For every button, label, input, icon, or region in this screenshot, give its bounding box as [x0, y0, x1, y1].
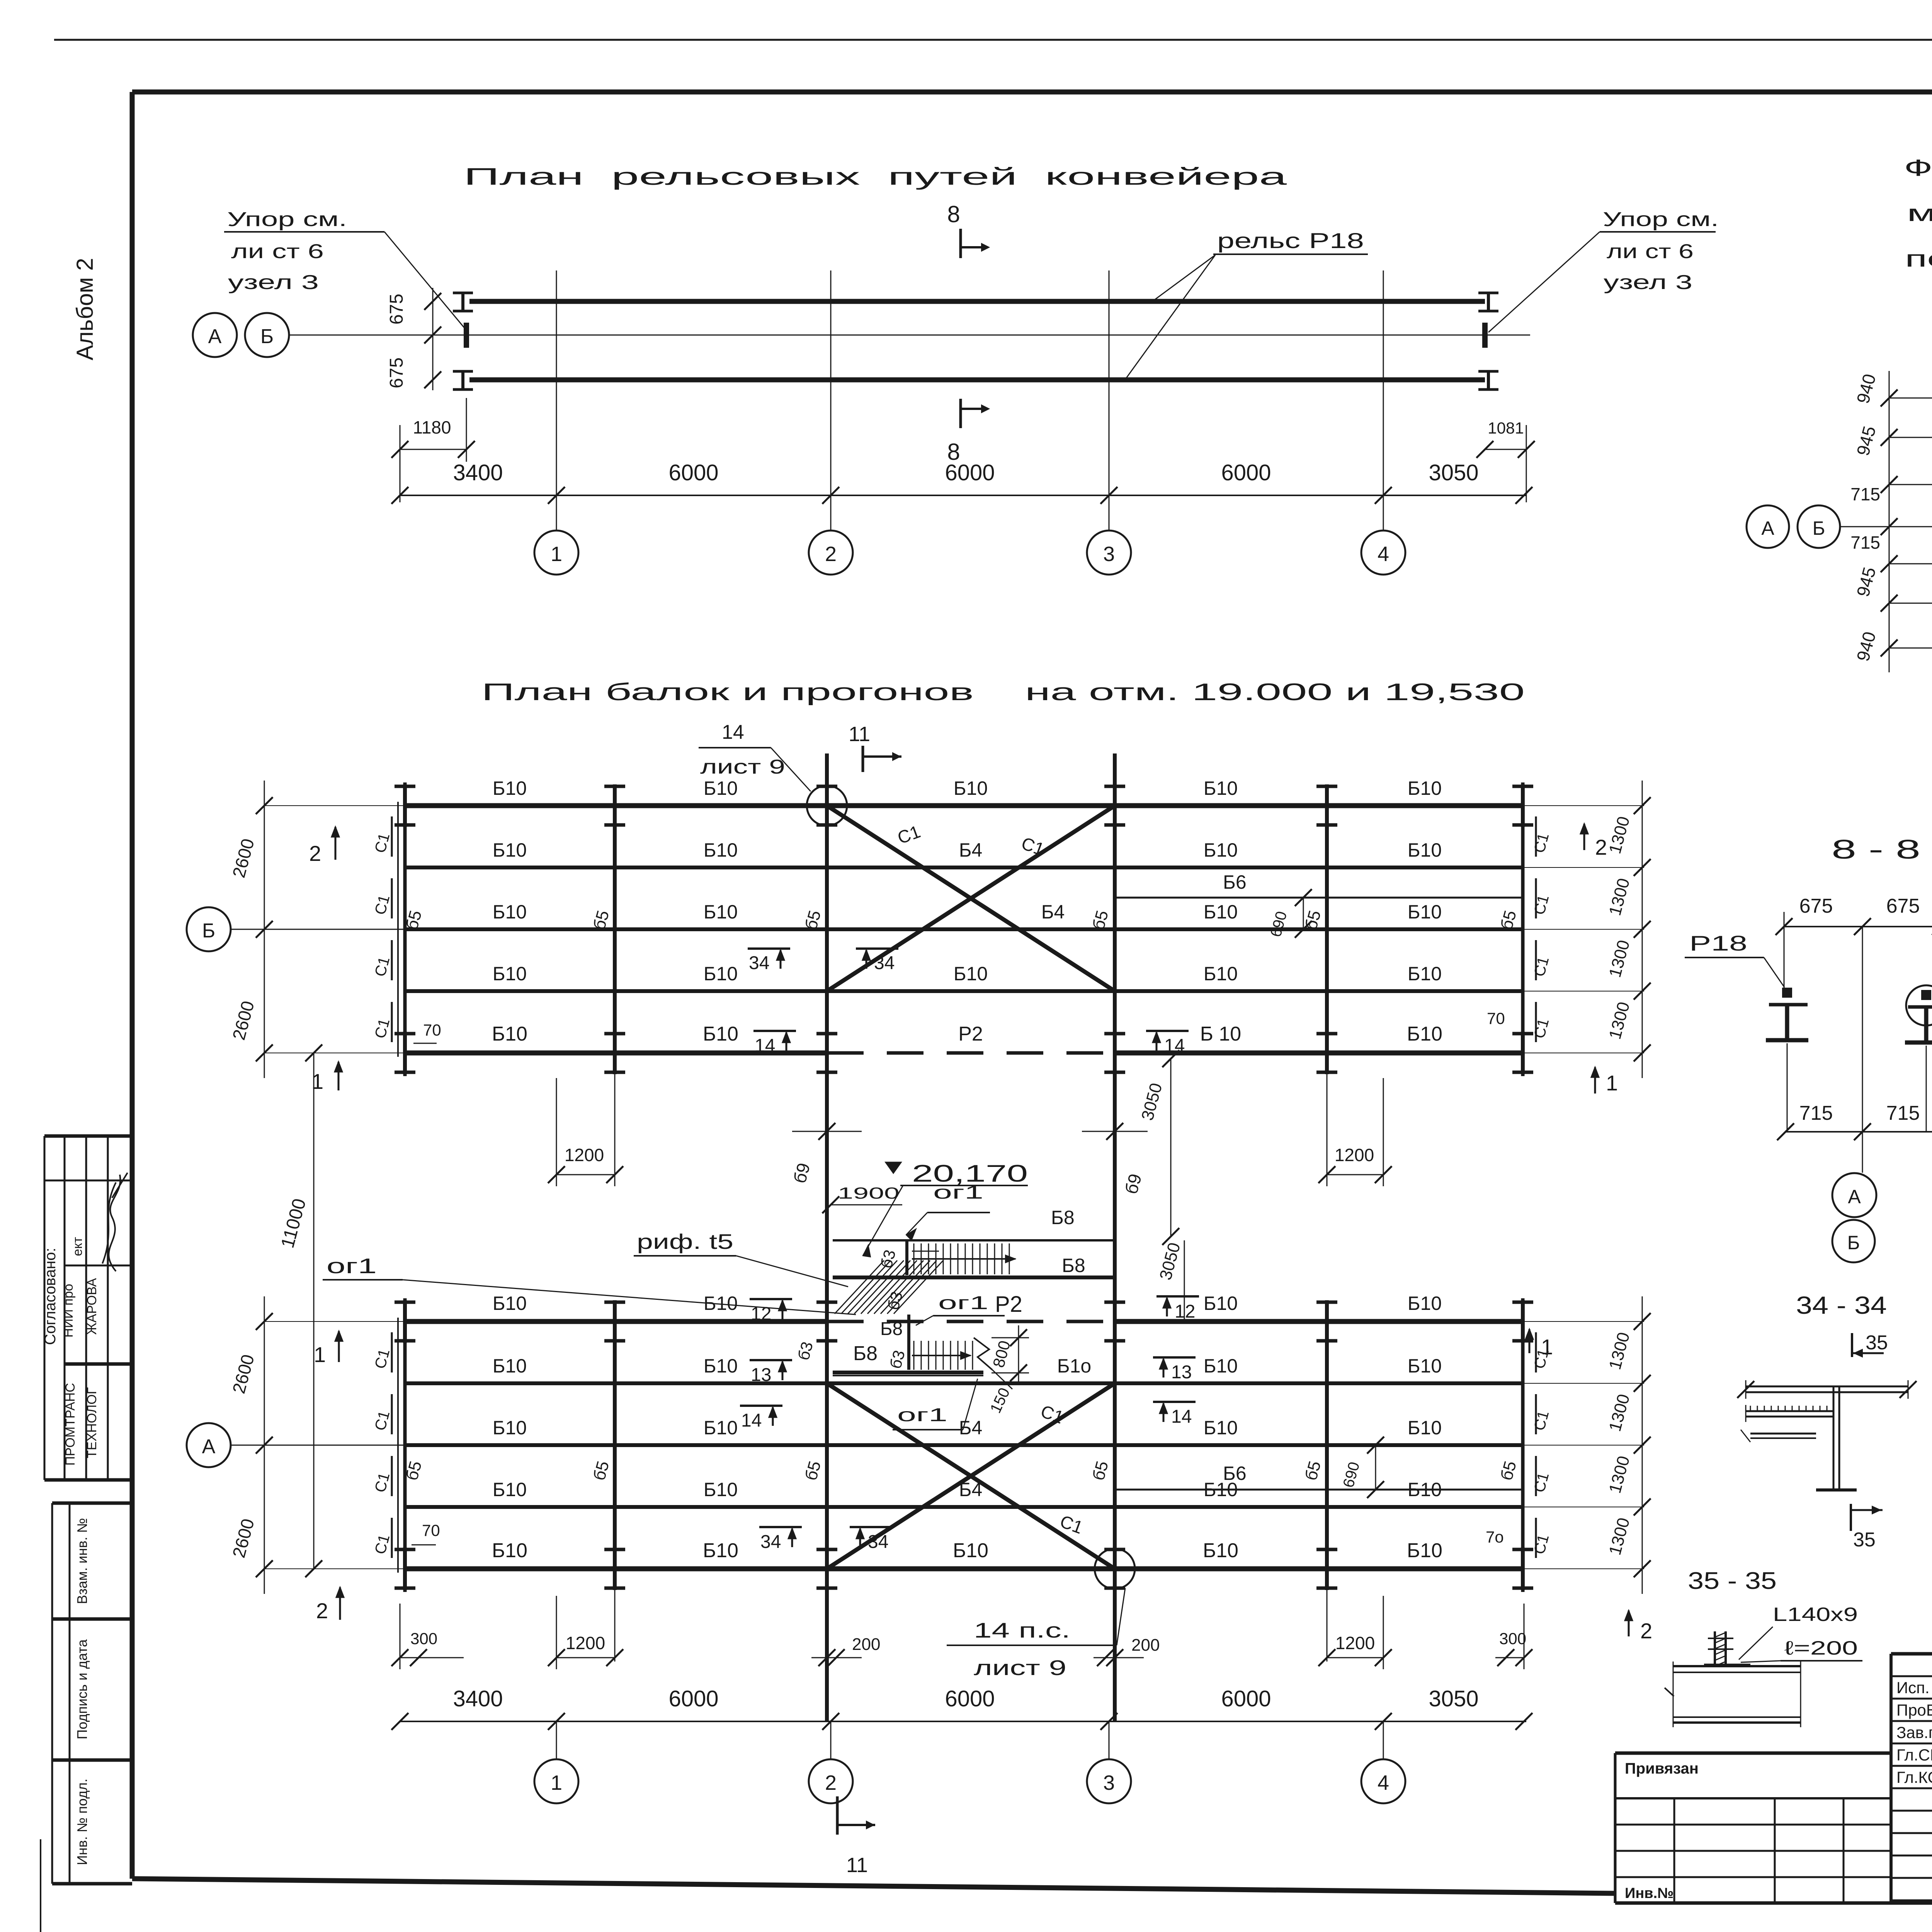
right rail stop (upor): [1482, 323, 1488, 348]
svg-text:Б4: Б4: [959, 839, 983, 861]
svg-text:лист 9: лист 9: [974, 1656, 1066, 1680]
svg-text:4: 4: [1378, 1771, 1389, 1794]
rails main dimension string 3400 6000 6000 6000 3050: [400, 495, 1526, 496]
8-8 circle on right rail: [1906, 985, 1932, 1026]
svg-text:Инв. № подл.: Инв. № подл.: [74, 1779, 90, 1865]
svg-text:1: 1: [1606, 1071, 1618, 1095]
Б band beam row 5 with Р2 dashed part: [405, 1051, 827, 1056]
column bubbles 1 2 3 4 bottom: [556, 1721, 557, 1759]
svg-text:Б10: Б10: [493, 777, 527, 799]
svg-text:риф. t5: риф. t5: [637, 1230, 733, 1253]
stair flight lower: [913, 1341, 915, 1370]
svg-text:14: 14: [741, 1410, 762, 1431]
svg-text:А: А: [1761, 517, 1774, 539]
svg-text:лист 9: лист 9: [700, 756, 785, 778]
svg-text:6000: 6000: [668, 1686, 718, 1711]
svg-text:Б10: Б10: [1204, 777, 1238, 799]
svg-text:200: 200: [1131, 1636, 1160, 1655]
marker 34 pair А band: [759, 1526, 802, 1528]
sheet inner frame left border: [130, 92, 135, 1879]
dim 1180 left: [400, 425, 401, 502]
svg-text:Б10: Б10: [493, 901, 527, 923]
left stamp box Подпись и дата: [52, 1759, 132, 1762]
svg-text:L140х9: L140х9: [1773, 1604, 1858, 1625]
svg-text:70: 70: [422, 1521, 440, 1539]
svg-text:Б10: Б10: [1204, 1479, 1238, 1500]
svg-text:Б8: Б8: [853, 1342, 878, 1365]
svg-text:3: 3: [1103, 543, 1115, 566]
svg-text:Б10: Б10: [1407, 1023, 1442, 1045]
svg-text:Исп.: Исп.: [1896, 1679, 1930, 1697]
svg-text:ог1: ог1: [933, 1182, 983, 1203]
Б band beam Б6 extra line: [1115, 897, 1523, 899]
svg-text:Б10: Б10: [953, 1539, 988, 1562]
svg-text:13: 13: [1171, 1362, 1192, 1383]
svg-text:3400: 3400: [453, 1686, 503, 1711]
svg-text:Б10: Б10: [1408, 1417, 1442, 1439]
column bubbles 1 2 3 4 of rails plan: [556, 495, 557, 531]
left stamp table Согласовано: [44, 1134, 132, 1138]
svg-text:Б10: Б10: [704, 777, 738, 799]
svg-text:1: 1: [311, 1069, 323, 1094]
svg-text:6000: 6000: [945, 1686, 995, 1711]
svg-text:Б10: Б10: [704, 839, 738, 861]
8-8 axis circles А Б: [1832, 1173, 1876, 1217]
svg-text:А: А: [202, 1435, 216, 1458]
А band right dims 1300 x4: [1642, 1296, 1643, 1594]
svg-text:34 - 34: 34 - 34: [1796, 1291, 1887, 1319]
svg-text:34: 34: [874, 953, 895, 973]
small dims under А band: [400, 1604, 401, 1669]
svg-text:ект: ект: [70, 1237, 85, 1256]
svg-text:715: 715: [1850, 484, 1880, 504]
svg-text:300: 300: [410, 1629, 437, 1648]
svg-text:Б10: Б10: [492, 1539, 527, 1562]
svg-text:Б10: Б10: [1408, 1293, 1442, 1314]
svg-text:ог1: ог1: [897, 1405, 947, 1425]
svg-text:Б8: Б8: [880, 1319, 903, 1339]
svg-text:14: 14: [1171, 1406, 1192, 1427]
Б band left dim 2600/2600: [264, 781, 265, 1078]
svg-text:1200: 1200: [565, 1145, 604, 1165]
detail 35-35 angle bracket: [1714, 1631, 1716, 1666]
svg-text:Б: Б: [260, 325, 274, 348]
svg-text:1: 1: [551, 1771, 562, 1794]
stair block beams Б8: [833, 1239, 1116, 1242]
svg-text:Б6: Б6: [1223, 871, 1247, 893]
svg-text:Б10: Б10: [1204, 1417, 1238, 1439]
svg-text:675: 675: [386, 294, 407, 325]
svg-text:Б10: Б10: [493, 1417, 527, 1439]
dim 800 rotated: [992, 1337, 1029, 1338]
svg-text:715: 715: [1799, 1102, 1833, 1124]
dim 1200 between bands left: [556, 1078, 557, 1186]
svg-text:Зав.гр.: Зав.гр.: [1896, 1723, 1932, 1742]
8-8 центральная axis vertical: [1862, 927, 1863, 1173]
marker 12 pair А band: [750, 1298, 792, 1300]
Б band X bracing: [827, 806, 1115, 991]
title block top edge: [1891, 1652, 1932, 1656]
ticks on columns between bands: [818, 1123, 835, 1140]
svg-text:2: 2: [316, 1599, 328, 1623]
column 2 vertical full: [825, 753, 829, 1721]
level mark 20,170: [886, 1162, 901, 1173]
dim 3050 upper rotated: [1170, 1059, 1172, 1236]
svg-text:8: 8: [947, 201, 960, 227]
svg-text:Б8: Б8: [1051, 1207, 1075, 1228]
svg-text:1180: 1180: [413, 417, 451, 437]
svg-text:Б10: Б10: [1408, 777, 1442, 799]
svg-text:Б10: Б10: [1408, 1355, 1442, 1377]
marker 13 pair А band: [750, 1359, 792, 1361]
svg-text:Б10: Б10: [1204, 839, 1238, 861]
svg-text:1: 1: [1541, 1335, 1553, 1359]
svg-text:Б10: Б10: [1408, 839, 1442, 861]
section mark 11 bottom: [836, 1796, 839, 1835]
svg-text:675: 675: [1886, 895, 1920, 917]
svg-text:1200: 1200: [1335, 1145, 1374, 1165]
svg-text:11: 11: [849, 723, 870, 746]
dim 11000 vertical: [313, 1053, 315, 1569]
svg-text:675: 675: [1799, 895, 1833, 917]
svg-text:14: 14: [755, 1036, 775, 1056]
svg-text:Упор см.: Упор см.: [1603, 208, 1719, 231]
svg-text:План рельсовых путей конвей: План рельсовых путей конвейера: [464, 163, 1287, 190]
detail 34-34 drawing: [1746, 1386, 1908, 1388]
svg-text:НИИ про: НИИ про: [61, 1284, 76, 1337]
svg-text:Б10: Б10: [703, 1539, 738, 1562]
svg-text:14: 14: [722, 721, 744, 743]
svg-text:Б10: Б10: [493, 1293, 527, 1314]
svg-text:Б10: Б10: [1408, 963, 1442, 985]
svg-text:4: 4: [1378, 543, 1389, 566]
axis line А-Б of rails: [289, 335, 1530, 336]
svg-text:Б10: Б10: [704, 1417, 738, 1439]
svg-text:1: 1: [551, 543, 562, 566]
svg-text:Б4: Б4: [959, 1479, 983, 1500]
svg-text:1200: 1200: [1335, 1633, 1375, 1653]
svg-text:Б4: Б4: [1041, 901, 1065, 923]
svg-text:6000: 6000: [668, 460, 718, 485]
svg-text:2: 2: [825, 543, 837, 566]
А band beam Б6 extra line: [1115, 1489, 1523, 1491]
svg-text:2: 2: [1595, 835, 1607, 859]
svg-text:ли ст 6: ли ст 6: [1607, 240, 1694, 263]
Б band beam row 1: [405, 803, 1523, 808]
Б band beam row 3 (axis Б): [405, 927, 1523, 931]
svg-text:13: 13: [751, 1365, 771, 1385]
svg-text:А: А: [208, 325, 222, 348]
svg-text:2: 2: [309, 841, 321, 866]
svg-text:35: 35: [1853, 1529, 1876, 1551]
svg-text:Б10: Б10: [1203, 1539, 1238, 1562]
svg-text:Б10: Б10: [1204, 901, 1238, 923]
marker 14 pair Б band: [753, 1030, 796, 1032]
svg-text:Инв.№: Инв.№: [1625, 1885, 1674, 1901]
А band X bracing: [827, 1383, 1115, 1569]
svg-text:8 - 8: 8 - 8: [1832, 834, 1920, 864]
svg-text:14: 14: [1164, 1036, 1185, 1056]
svg-text:3400: 3400: [453, 460, 503, 485]
svg-text:узел 3: узел 3: [1604, 271, 1692, 294]
svg-text:Б10: Б10: [703, 1023, 738, 1045]
svg-text:34: 34: [760, 1532, 781, 1552]
svg-text:ог1: ог1: [327, 1254, 377, 1278]
А band beam row 3 (axis А): [405, 1443, 1523, 1447]
svg-text:перекрытием на отм. 15,000: перекрытием на отм. 15,000: [1905, 246, 1932, 272]
8-8 left rail section: [1782, 988, 1792, 998]
stair vertical beams б3: [905, 1241, 908, 1275]
svg-text:План балок и прогонов на от: План балок и прогонов на отм. 19.000 и 1…: [481, 679, 1525, 706]
axis circle Б of plan: [187, 907, 231, 951]
column grid verticals through rails: [556, 270, 557, 502]
svg-text:Альбом 2: Альбом 2: [72, 258, 98, 360]
svg-text:ог1: ог1: [938, 1293, 988, 1313]
svg-text:Б10: Б10: [1407, 1539, 1442, 1562]
svg-text:Упор см.: Упор см.: [227, 208, 347, 231]
section arrows right of Б band: [1583, 824, 1585, 850]
svg-text:Б1о: Б1о: [1057, 1355, 1091, 1377]
svg-text:1200: 1200: [566, 1633, 605, 1653]
svg-text:рельс Р18: рельс Р18: [1217, 228, 1364, 253]
svg-text:Б10: Б10: [1204, 1355, 1238, 1377]
marker 14 pair А band: [740, 1405, 782, 1407]
svg-text:Б10: Б10: [493, 1355, 527, 1377]
svg-text:Б10: Б10: [704, 963, 738, 985]
svg-text:Б10: Б10: [1204, 1293, 1238, 1314]
svg-text:Б10: Б10: [1408, 1479, 1442, 1500]
svg-text:Б10: Б10: [493, 839, 527, 861]
svg-text:3: 3: [1103, 1771, 1115, 1794]
section mark 8 bottom: [959, 399, 962, 428]
sheet outer border left line (partial): [40, 1839, 41, 1932]
svg-text:ℓ=200: ℓ=200: [1784, 1637, 1858, 1659]
band edge verticals: [397, 802, 399, 1057]
svg-text:35: 35: [1866, 1332, 1888, 1354]
dim 1081 right: [1526, 425, 1527, 502]
8-8 dim 715 715: [1786, 1131, 1932, 1133]
band interior verticals: [613, 806, 617, 1053]
sheet outer border top line: [54, 39, 1932, 41]
rail top R18: [469, 299, 1485, 304]
sheet inner frame top border: [132, 90, 1932, 95]
joint circle column2 row1: [807, 786, 847, 826]
svg-text:Б10: Б10: [493, 963, 527, 985]
svg-text:ТЕХНОЛОГ: ТЕХНОЛОГ: [85, 1387, 99, 1458]
svg-text:2: 2: [1640, 1619, 1652, 1643]
svg-text:Б10: Б10: [493, 1479, 527, 1500]
marker 35 lower: [1850, 1504, 1852, 1531]
А band beam row 1 with Р2 dashed part: [405, 1319, 827, 1324]
А band beam row 5: [405, 1566, 1523, 1571]
svg-text:70: 70: [1487, 1009, 1505, 1027]
svg-text:1081: 1081: [1488, 419, 1524, 437]
svg-text:70: 70: [423, 1021, 441, 1039]
svg-text:Б10: Б10: [704, 1355, 738, 1377]
svg-text:Б: Б: [1813, 517, 1825, 539]
column 3 vertical full: [1113, 753, 1117, 1721]
Б band right dims 1300 x4: [1642, 781, 1643, 1078]
axis circles А Б of rails plan: [193, 313, 237, 357]
marker 34 pair Б band: [748, 947, 790, 950]
rail bottom R18: [469, 378, 1485, 383]
left rail stop (upor): [464, 323, 469, 348]
dim 1200 between bands right: [1383, 1078, 1384, 1186]
svg-text:2: 2: [825, 1771, 837, 1794]
svg-text:Р2: Р2: [995, 1292, 1022, 1317]
svg-text:3050: 3050: [1429, 1686, 1478, 1711]
svg-text:34: 34: [749, 953, 769, 973]
svg-text:Согласовано:: Согласовано:: [42, 1248, 59, 1345]
svg-text:35 - 35: 35 - 35: [1688, 1568, 1777, 1594]
dim 675/675 vertical at rails: [432, 288, 434, 390]
svg-text:ПРОМТРАНС: ПРОМТРАНС: [63, 1383, 78, 1466]
svg-text:3050: 3050: [1429, 460, 1478, 485]
svg-text:Б10: Б10: [954, 963, 988, 985]
svg-text:Б: Б: [202, 920, 215, 942]
left stamp box Инв. № подл.: [52, 1882, 132, 1886]
svg-text:Б 10: Б 10: [1200, 1023, 1241, 1045]
svg-text:Б10: Б10: [1204, 963, 1238, 985]
А band beam row 2: [405, 1381, 1523, 1385]
svg-text:200: 200: [852, 1635, 880, 1654]
svg-text:Б: Б: [1847, 1232, 1860, 1253]
svg-text:Б4: Б4: [959, 1417, 983, 1439]
signature table: [1891, 1675, 1932, 1677]
fragment axis line А-Б: [1839, 526, 1932, 527]
svg-text:ПроВ.: ПроВ.: [1896, 1701, 1932, 1719]
detail 35-35 drawing: [1673, 1665, 1801, 1667]
approval signature squiggle: [102, 1173, 128, 1271]
svg-text:Б10: Б10: [1408, 901, 1442, 923]
svg-text:12: 12: [1175, 1301, 1195, 1322]
svg-text:Взам. инв. №: Взам. инв. №: [74, 1518, 90, 1604]
stair break line: [974, 1338, 992, 1370]
svg-text:6000: 6000: [1221, 460, 1271, 485]
8-8 right rail section: [1921, 990, 1931, 1000]
left stamp box Взам. инв. №: [52, 1502, 132, 1505]
А band main dimension string: [400, 1721, 1526, 1722]
section arrows right of А band: [1529, 1329, 1531, 1353]
svg-text:Р2: Р2: [958, 1023, 983, 1045]
joint circle column3 А row5: [1095, 1549, 1135, 1589]
svg-text:ЖАРОВА: ЖАРОВА: [85, 1278, 99, 1335]
svg-text:между верхом банки Бс1 и: между верхом банки Бс1 и: [1907, 200, 1932, 226]
svg-text:Привязан: Привязан: [1625, 1760, 1699, 1777]
svg-text:Б10: Б10: [704, 901, 738, 923]
svg-text:8: 8: [947, 439, 960, 465]
svg-text:Гл.КОН: Гл.КОН: [1896, 1768, 1932, 1786]
svg-text:Фрагмент заделки пространств: Фрагмент заделки пространства: [1904, 155, 1932, 181]
svg-text:715: 715: [1850, 532, 1880, 553]
svg-text:7о: 7о: [1486, 1528, 1504, 1546]
title block bottom edge: [1615, 1901, 1932, 1905]
svg-text:6000: 6000: [1221, 1686, 1271, 1711]
Б band beam row 4: [405, 989, 1523, 993]
svg-text:Б10: Б10: [704, 1479, 738, 1500]
svg-text:1: 1: [314, 1342, 326, 1367]
fragment axis circles А Б: [1747, 505, 1789, 548]
svg-text:300: 300: [1499, 1629, 1526, 1648]
stair flight upper: [913, 1243, 915, 1274]
stair riff hatch: [835, 1260, 884, 1314]
А band left dim 2600/2600: [264, 1296, 265, 1594]
I-beam end markers: [403, 784, 407, 827]
svg-text:715: 715: [1886, 1102, 1920, 1124]
А band beam row 4: [405, 1505, 1523, 1509]
svg-text:675: 675: [386, 357, 407, 388]
axis circle А of plan: [187, 1423, 231, 1467]
svg-text:Р18: Р18: [1689, 931, 1747, 955]
sheet inner frame bottom border: [132, 1879, 1615, 1893]
8-8 dim 675 675: [1784, 926, 1932, 927]
svg-text:Подпись и дата: Подпись и дата: [74, 1639, 90, 1740]
svg-text:ли ст 6: ли ст 6: [231, 240, 324, 263]
fragment dim column left: [1889, 371, 1890, 672]
svg-text:А: А: [1848, 1186, 1861, 1207]
svg-text:узел 3: узел 3: [228, 271, 319, 294]
svg-text:Б8: Б8: [1062, 1255, 1085, 1276]
svg-text:14 п.с.: 14 п.с.: [974, 1618, 1070, 1642]
svg-text:Б10: Б10: [492, 1023, 527, 1045]
svg-text:34: 34: [868, 1532, 888, 1552]
left attachment table Привязан: [1615, 1752, 1891, 1755]
Б band beam row 2: [405, 866, 1523, 869]
svg-text:11: 11: [846, 1854, 868, 1877]
svg-text:Б10: Б10: [954, 777, 988, 799]
svg-text:Гл.СП.: Гл.СП.: [1896, 1746, 1932, 1764]
svg-text:1900: 1900: [838, 1184, 900, 1202]
